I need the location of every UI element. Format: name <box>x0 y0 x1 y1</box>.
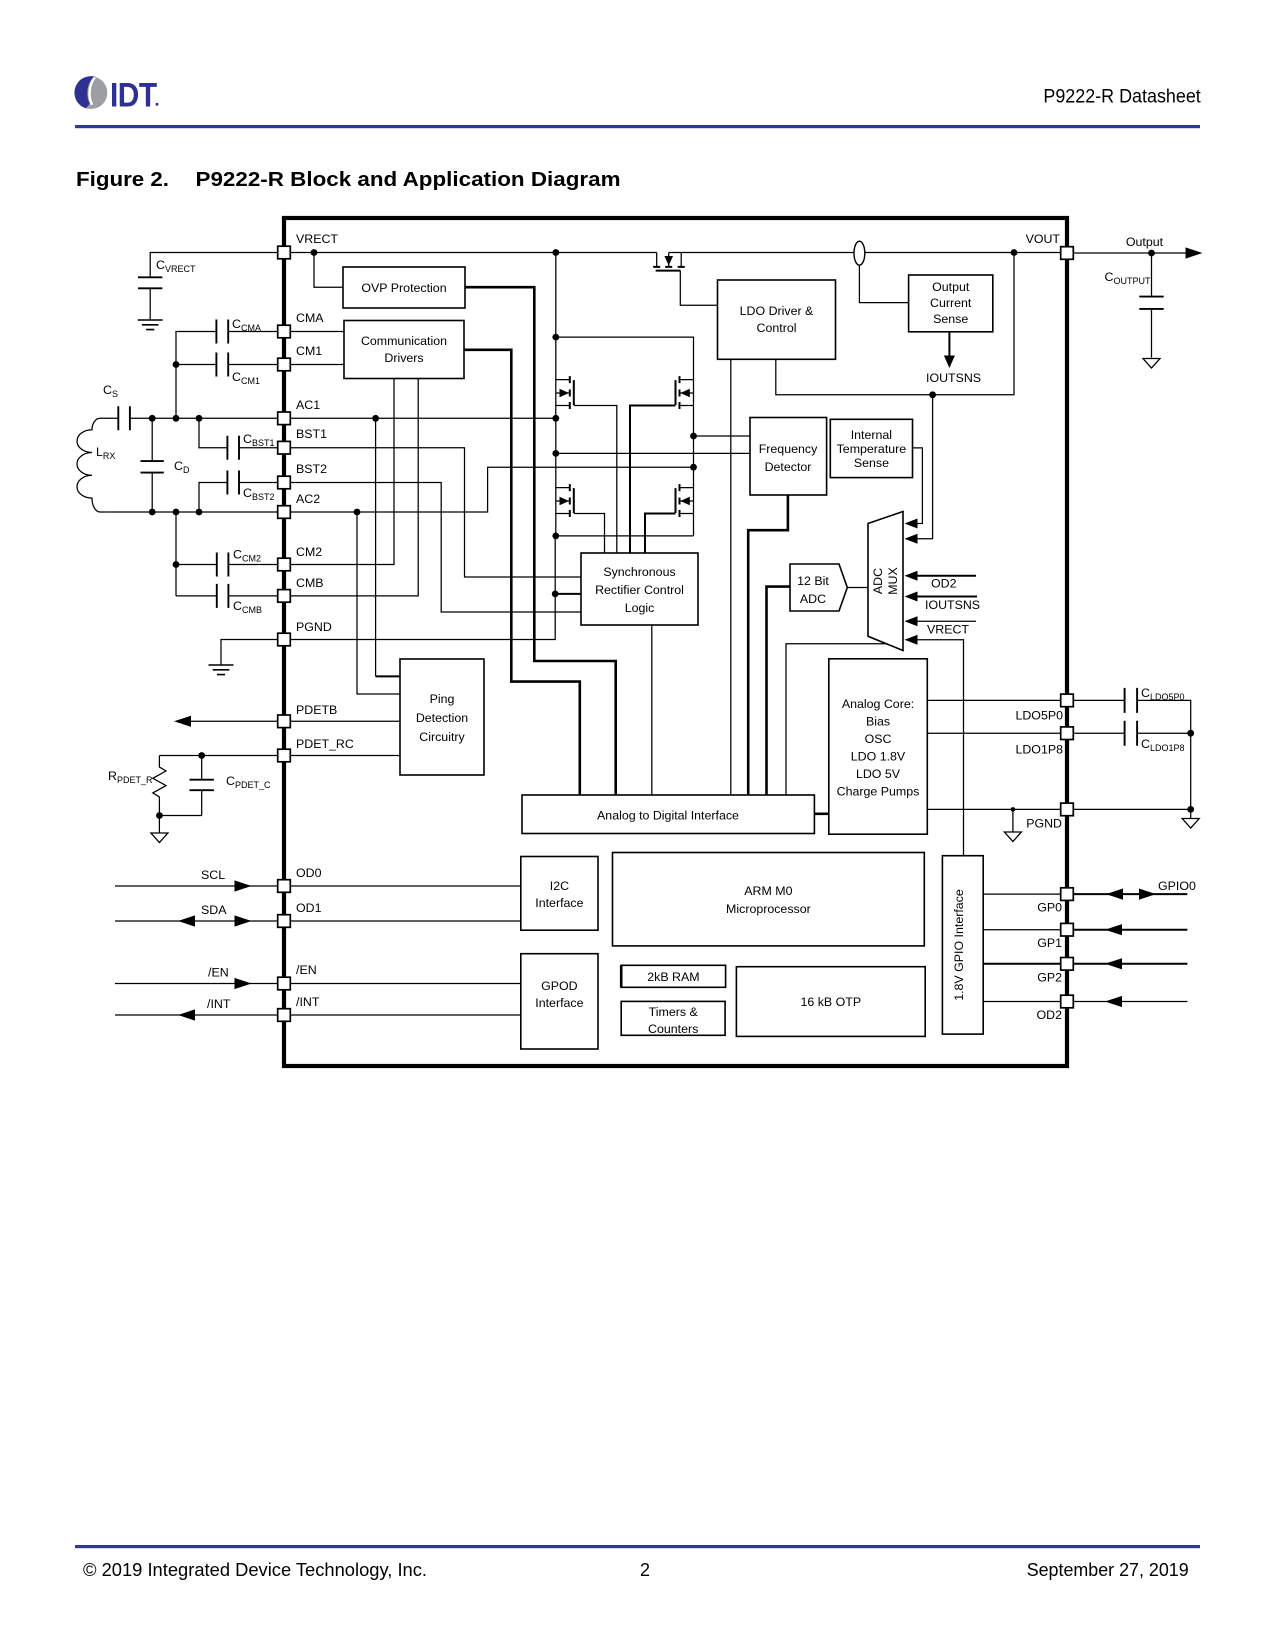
wire AC2 to ping detection <box>357 512 400 694</box>
node AC1 sense junction <box>552 450 559 457</box>
wire sense tap to Output Current Sense <box>859 265 908 302</box>
box 1.8V GPIO Interface <box>942 856 983 1034</box>
svg-text:OVP Protection: OVP Protection <box>361 281 446 295</box>
node CCM2 junction <box>173 561 180 568</box>
wire LDO Driver to ADI <box>730 359 732 795</box>
transistor Q3 (bridge low-side left) <box>556 484 605 553</box>
header rule <box>75 125 1200 128</box>
wire BST2 to sync logic <box>284 483 581 613</box>
ground PGND internal <box>1012 809 1014 831</box>
footer rule <box>75 1545 1200 1548</box>
node AC2 Cd <box>149 509 156 516</box>
box Timers & Counters <box>621 1001 725 1035</box>
pin square GP0 right <box>1061 888 1074 901</box>
transistor Q5 (VOUT pass FET) <box>653 253 717 306</box>
svg-text:Figure 2.: Figure 2. <box>76 169 169 191</box>
node AC2 ping branch <box>354 509 361 516</box>
node AC1 comm chain <box>173 415 180 422</box>
pin square OD2 right <box>1061 995 1074 1008</box>
node output cap junction <box>1148 250 1155 257</box>
svg-text:Communication: Communication <box>361 334 447 348</box>
svg-text:P9222-R Datasheet: P9222-R Datasheet <box>1043 87 1201 108</box>
svg-text:Timers &: Timers & <box>649 1005 699 1019</box>
node IOUTSNS-mux junction <box>929 391 936 398</box>
node CCM1 junction <box>173 361 180 368</box>
capacitor CCMA <box>176 332 344 419</box>
svg-text:Temperature: Temperature <box>837 442 907 456</box>
mux ADC MUX <box>868 512 903 651</box>
svg-text:Interface: Interface <box>535 996 583 1010</box>
wire OD2 <box>983 1001 1187 1003</box>
ground right bus <box>1182 819 1199 829</box>
pin square GP2 right <box>1061 958 1074 971</box>
pin square PGND right <box>1061 803 1074 816</box>
svg-text:Drivers: Drivers <box>384 351 423 365</box>
ground COUTPUT <box>1143 359 1160 369</box>
op box OVP Protection <box>343 267 465 308</box>
svg-text:16 kB OTP: 16 kB OTP <box>800 995 861 1009</box>
svg-text:Circuitry: Circuitry <box>419 730 465 744</box>
transistor Q2 (bridge high-side right) <box>630 376 694 553</box>
svg-text:Frequency: Frequency <box>759 442 818 456</box>
box GPOD Interface <box>521 954 598 1049</box>
svg-text:BST2: BST2 <box>296 462 327 476</box>
svg-text:2: 2 <box>640 1560 650 1580</box>
svg-text:Output: Output <box>932 280 970 294</box>
svg-text:IOUTSNS: IOUTSNS <box>926 371 981 385</box>
pin square CMB <box>278 590 291 603</box>
capacitor CBST2 <box>199 483 284 513</box>
wire BST1 to sync logic <box>284 448 581 577</box>
wire ADI to analog core (thick) <box>814 812 828 815</box>
svg-text:CM1: CM1 <box>296 344 322 358</box>
svg-text:Detection: Detection <box>416 711 468 725</box>
wire AC2 line <box>106 511 284 513</box>
svg-text:Internal: Internal <box>851 428 892 442</box>
svg-text:OD2: OD2 <box>931 577 957 591</box>
svg-text:GPOD: GPOD <box>541 979 578 993</box>
ground CVRECT <box>138 320 163 330</box>
svg-text:CMB: CMB <box>296 576 324 590</box>
wire IOUTSNS to ADC MUX <box>917 395 933 539</box>
wire AC1 to ping detection (thick) <box>375 418 377 676</box>
box Communication Drivers <box>344 321 464 379</box>
svg-text:LDO 1.8V: LDO 1.8V <box>851 750 906 764</box>
svg-text:AC2: AC2 <box>296 492 320 506</box>
wire PGND right <box>927 808 1190 810</box>
wire ADC to MUX <box>847 587 868 589</box>
box LDO Driver & Control <box>718 280 836 359</box>
svg-text:12 Bit: 12 Bit <box>797 574 829 588</box>
node AC2 bst chain <box>196 509 203 516</box>
svg-text:Control: Control <box>757 321 797 335</box>
node top rail <box>552 334 559 341</box>
wire IOUTSNS net <box>776 253 1014 395</box>
svg-text:LDO 5V: LDO 5V <box>856 767 901 781</box>
svg-text:PDETB: PDETB <box>296 703 337 717</box>
svg-text:GP1: GP1 <box>1037 936 1062 950</box>
box 16 kB OTP <box>736 967 925 1037</box>
wire ADC input (thick) from ADI <box>767 587 791 795</box>
svg-text:ADC: ADC <box>871 568 885 594</box>
pin square PDET_RC <box>278 749 291 762</box>
svg-text:VOUT: VOUT <box>1026 232 1061 246</box>
pin square CM2 <box>278 558 291 571</box>
wire AC1 line <box>130 417 284 419</box>
pin square VOUT right <box>1061 247 1074 260</box>
adc 12 Bit ADC <box>790 564 847 611</box>
pin square GP1 right <box>1061 923 1074 936</box>
svg-text:/EN: /EN <box>208 966 229 980</box>
svg-text:LDO1P8: LDO1P8 <box>1015 742 1063 756</box>
pin square VRECT <box>278 246 291 259</box>
capacitor CS <box>118 406 130 430</box>
wire PGND to ground <box>221 640 284 666</box>
wire bridge node to sync logic (thick) <box>555 593 581 595</box>
node LDO1P8 bus <box>1187 730 1194 737</box>
pin square AC2 <box>278 506 291 519</box>
wire LDO1P8 <box>927 733 1190 818</box>
box I2C Interface <box>521 857 598 931</box>
capacitor CLDO1P8 <box>1125 721 1138 746</box>
node PGND stub <box>1011 807 1016 812</box>
svg-text:ADC: ADC <box>800 592 826 606</box>
wire OVP output bus (thick) to ADI <box>465 287 616 795</box>
wire PDET_RC <box>159 755 400 757</box>
svg-text:IOUTSNS: IOUTSNS <box>925 598 980 612</box>
svg-text:/INT: /INT <box>296 995 320 1009</box>
svg-text:Bias: Bias <box>866 715 890 729</box>
wire bridge left leg <box>555 253 557 537</box>
pin square PDETB <box>278 715 291 728</box>
wire Comm Drivers output bus (thick) to ADI <box>464 350 580 795</box>
wire /EN <box>115 983 521 985</box>
pin square CM1 <box>278 358 291 371</box>
node VRECT-OVP junction <box>311 249 318 256</box>
capacitor CCMB <box>176 595 284 597</box>
svg-text:BST1: BST1 <box>296 427 327 441</box>
svg-text:Counters: Counters <box>648 1022 698 1036</box>
wire bridge to frequency detector A <box>694 435 751 437</box>
wire OCS to IOUTSNS arrow <box>948 332 950 356</box>
box 2kB RAM <box>621 965 725 987</box>
svg-text:Sense: Sense <box>933 312 968 326</box>
svg-text:1.8V GPIO Interface: 1.8V GPIO Interface <box>952 889 966 1001</box>
node AC1 bst chain <box>196 415 203 422</box>
svg-text:IDT: IDT <box>110 76 158 114</box>
svg-text:September 27, 2019: September 27, 2019 <box>1027 1560 1189 1580</box>
svg-text:Output: Output <box>1126 235 1164 249</box>
node bottom rail <box>552 533 559 540</box>
wire CM2 to comm drivers <box>284 379 394 565</box>
svg-text:Detector: Detector <box>765 460 812 474</box>
capacitor CCM1 <box>176 364 344 366</box>
svg-text:Synchronous: Synchronous <box>603 565 675 579</box>
node PGND-sync <box>552 591 559 598</box>
box Output Current Sense <box>909 275 993 332</box>
wire Output <box>1067 252 1200 254</box>
svg-text:© 2019 Integrated Device Techn: © 2019 Integrated Device Technology, Inc… <box>83 1560 427 1580</box>
transistor Q4 (bridge low-side right) <box>645 484 694 553</box>
wire PGND to bridge and sync <box>284 536 555 640</box>
node PDET_RC cap <box>198 752 205 759</box>
svg-text:I2C: I2C <box>550 879 569 893</box>
svg-text:Analog Core:: Analog Core: <box>842 697 914 711</box>
wire GP2 <box>983 963 1067 965</box>
svg-text:Interface: Interface <box>535 896 583 910</box>
pin square BST1 <box>278 441 291 454</box>
svg-text:VRECT: VRECT <box>296 232 338 246</box>
wire AC1 to bridge <box>284 417 556 419</box>
wire AC1 sense to frequency detector B <box>556 452 750 454</box>
wire sync logic to ADI <box>651 625 653 795</box>
wire /INT <box>115 1014 521 1016</box>
wire MUX input IOUTSNS stub <box>917 596 978 598</box>
pin square /INT <box>278 1009 291 1022</box>
box ARM M0 Microprocessor <box>613 853 925 946</box>
IDT logo <box>74 76 158 114</box>
capacitor CCM2 <box>176 512 284 596</box>
wire SCL <box>115 885 521 887</box>
current sense element <box>854 241 865 265</box>
wire VOUT rail <box>669 252 1061 254</box>
svg-text:P9222-R Block and Application: P9222-R Block and Application Diagram <box>196 169 621 191</box>
svg-text:OD0: OD0 <box>296 866 322 880</box>
pin square AC1 <box>278 412 291 425</box>
node Q2 freq tap <box>690 433 697 440</box>
node AC2 cm chain <box>173 509 180 516</box>
pin square LDO5P0 right <box>1061 694 1074 707</box>
svg-text:GPIO0: GPIO0 <box>1158 879 1196 893</box>
node Q2 ac2 tap <box>690 464 697 471</box>
svg-text:/INT: /INT <box>207 997 231 1011</box>
svg-text:Charge Pumps: Charge Pumps <box>837 785 920 799</box>
svg-text:/EN: /EN <box>296 963 317 977</box>
svg-text:CMA: CMA <box>296 311 324 325</box>
capacitor CVRECT <box>150 253 284 321</box>
svg-text:OD1: OD1 <box>296 901 322 915</box>
box Analog to Digital Interface <box>522 795 814 834</box>
box Analog Core <box>829 659 928 834</box>
wire VRECT rail <box>284 252 657 254</box>
svg-text:LDO Driver &: LDO Driver & <box>740 304 814 318</box>
svg-text:SCL: SCL <box>201 868 225 882</box>
pin square OD1 <box>278 915 291 928</box>
wire MUX input from GPIO interface <box>917 640 964 856</box>
node VRECT-bridge junction <box>552 249 559 256</box>
wire MUX select from ADI <box>786 644 887 795</box>
box Frequency Detector <box>750 418 827 496</box>
svg-text:2kB RAM: 2kB RAM <box>647 970 699 984</box>
svg-text:Ping: Ping <box>430 692 455 706</box>
capacitor CLDO5P0 <box>1125 688 1138 713</box>
node RC junction <box>156 812 163 819</box>
svg-text:PGND: PGND <box>296 620 332 634</box>
wire MUX input OD2 stub <box>917 575 977 577</box>
svg-text:Current: Current <box>930 296 972 310</box>
svg-text:PDET_RC: PDET_RC <box>296 737 354 751</box>
svg-text:AC1: AC1 <box>296 398 320 412</box>
svg-text:Sense: Sense <box>854 456 889 470</box>
capacitor CPDET_C <box>159 756 201 833</box>
pin square /EN <box>278 977 291 990</box>
wire ITS to ADC MUX <box>913 448 923 524</box>
pin square BST2 <box>278 476 291 489</box>
svg-text:Rectifier Control: Rectifier Control <box>595 583 684 597</box>
svg-text:CM2: CM2 <box>296 545 322 559</box>
wire GP1 <box>983 929 1067 931</box>
node PGND bus <box>1187 806 1194 813</box>
wire AC2 to bridge <box>284 467 694 512</box>
svg-text:PGND: PGND <box>1026 816 1062 830</box>
node VOUT-IOUTSNS junction <box>1011 249 1018 256</box>
box Internal Temperature Sense <box>830 419 912 477</box>
wire frequency detector to ADI (thick) <box>748 495 788 795</box>
svg-text:GP0: GP0 <box>1037 901 1062 915</box>
svg-text:Analog to Digital Interface: Analog to Digital Interface <box>597 809 739 823</box>
transistor Q1 (bridge high-side left) <box>556 376 617 553</box>
wire CMB to comm drivers <box>284 379 418 596</box>
svg-text:OD2: OD2 <box>1037 1008 1063 1022</box>
wire LDO5P0 <box>927 700 1190 733</box>
box Synchronous Rectifier Control Logic <box>581 553 698 625</box>
inductor LRX <box>77 418 118 512</box>
svg-text:GP2: GP2 <box>1037 970 1062 984</box>
ground PGND <box>209 665 234 675</box>
svg-text:Microprocessor: Microprocessor <box>726 902 811 916</box>
capacitor COUTPUT <box>1151 253 1153 358</box>
wire VRECT to OVP Protection <box>314 253 343 288</box>
svg-text:MUX: MUX <box>886 567 900 595</box>
capacitor CBST1 <box>199 418 284 447</box>
svg-text:ARM M0: ARM M0 <box>744 884 792 898</box>
pin square LDO1P8 right <box>1061 727 1074 740</box>
chip boundary U1 P9222-R <box>284 218 1067 1066</box>
pin square OD0 <box>278 880 291 893</box>
capacitor CD <box>151 418 153 512</box>
resistor RPDET_R <box>153 756 166 816</box>
wire MUX input VRECT stub <box>917 620 977 622</box>
ground RC <box>151 833 168 843</box>
pin square CMA <box>278 325 291 338</box>
wire PDETB <box>191 720 400 722</box>
svg-text:Logic: Logic <box>625 601 655 615</box>
wire GP0 / GPIO0 <box>983 893 1067 895</box>
node AC1 ping branch <box>372 415 379 422</box>
box Ping Detection Circuitry <box>400 659 484 775</box>
wire bridge top rail <box>556 337 694 536</box>
svg-text:VRECT: VRECT <box>927 623 969 637</box>
node AC1 Cd <box>149 415 156 422</box>
svg-text:SDA: SDA <box>201 903 227 917</box>
svg-text:LDO5P0: LDO5P0 <box>1015 709 1063 723</box>
svg-text:OSC: OSC <box>865 732 892 746</box>
node AC1 bridge <box>552 415 559 422</box>
wire SDA <box>115 920 521 922</box>
pin square PGND <box>278 633 291 646</box>
